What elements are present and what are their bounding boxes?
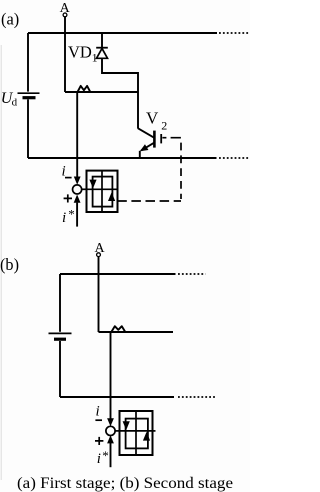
svg-text:2: 2 [161,118,167,132]
svg-text:(b): (b) [0,255,19,274]
svg-text:d: d [12,97,18,109]
svg-text:i: i [62,210,66,226]
svg-text:i: i [97,451,101,467]
svg-text:*: * [68,206,75,221]
svg-text:A: A [60,1,71,16]
svg-text:*: * [102,448,109,463]
svg-text:V: V [146,109,159,128]
svg-text:i: i [62,163,66,179]
svg-text:1: 1 [92,51,98,65]
svg-text:(a): (a) [1,10,19,29]
svg-text:(a) First stage; (b) Second st: (a) First stage; (b) Second stage [17,475,233,492]
svg-text:i: i [96,404,100,420]
svg-text:A: A [94,241,105,256]
svg-text:VD: VD [68,43,92,62]
